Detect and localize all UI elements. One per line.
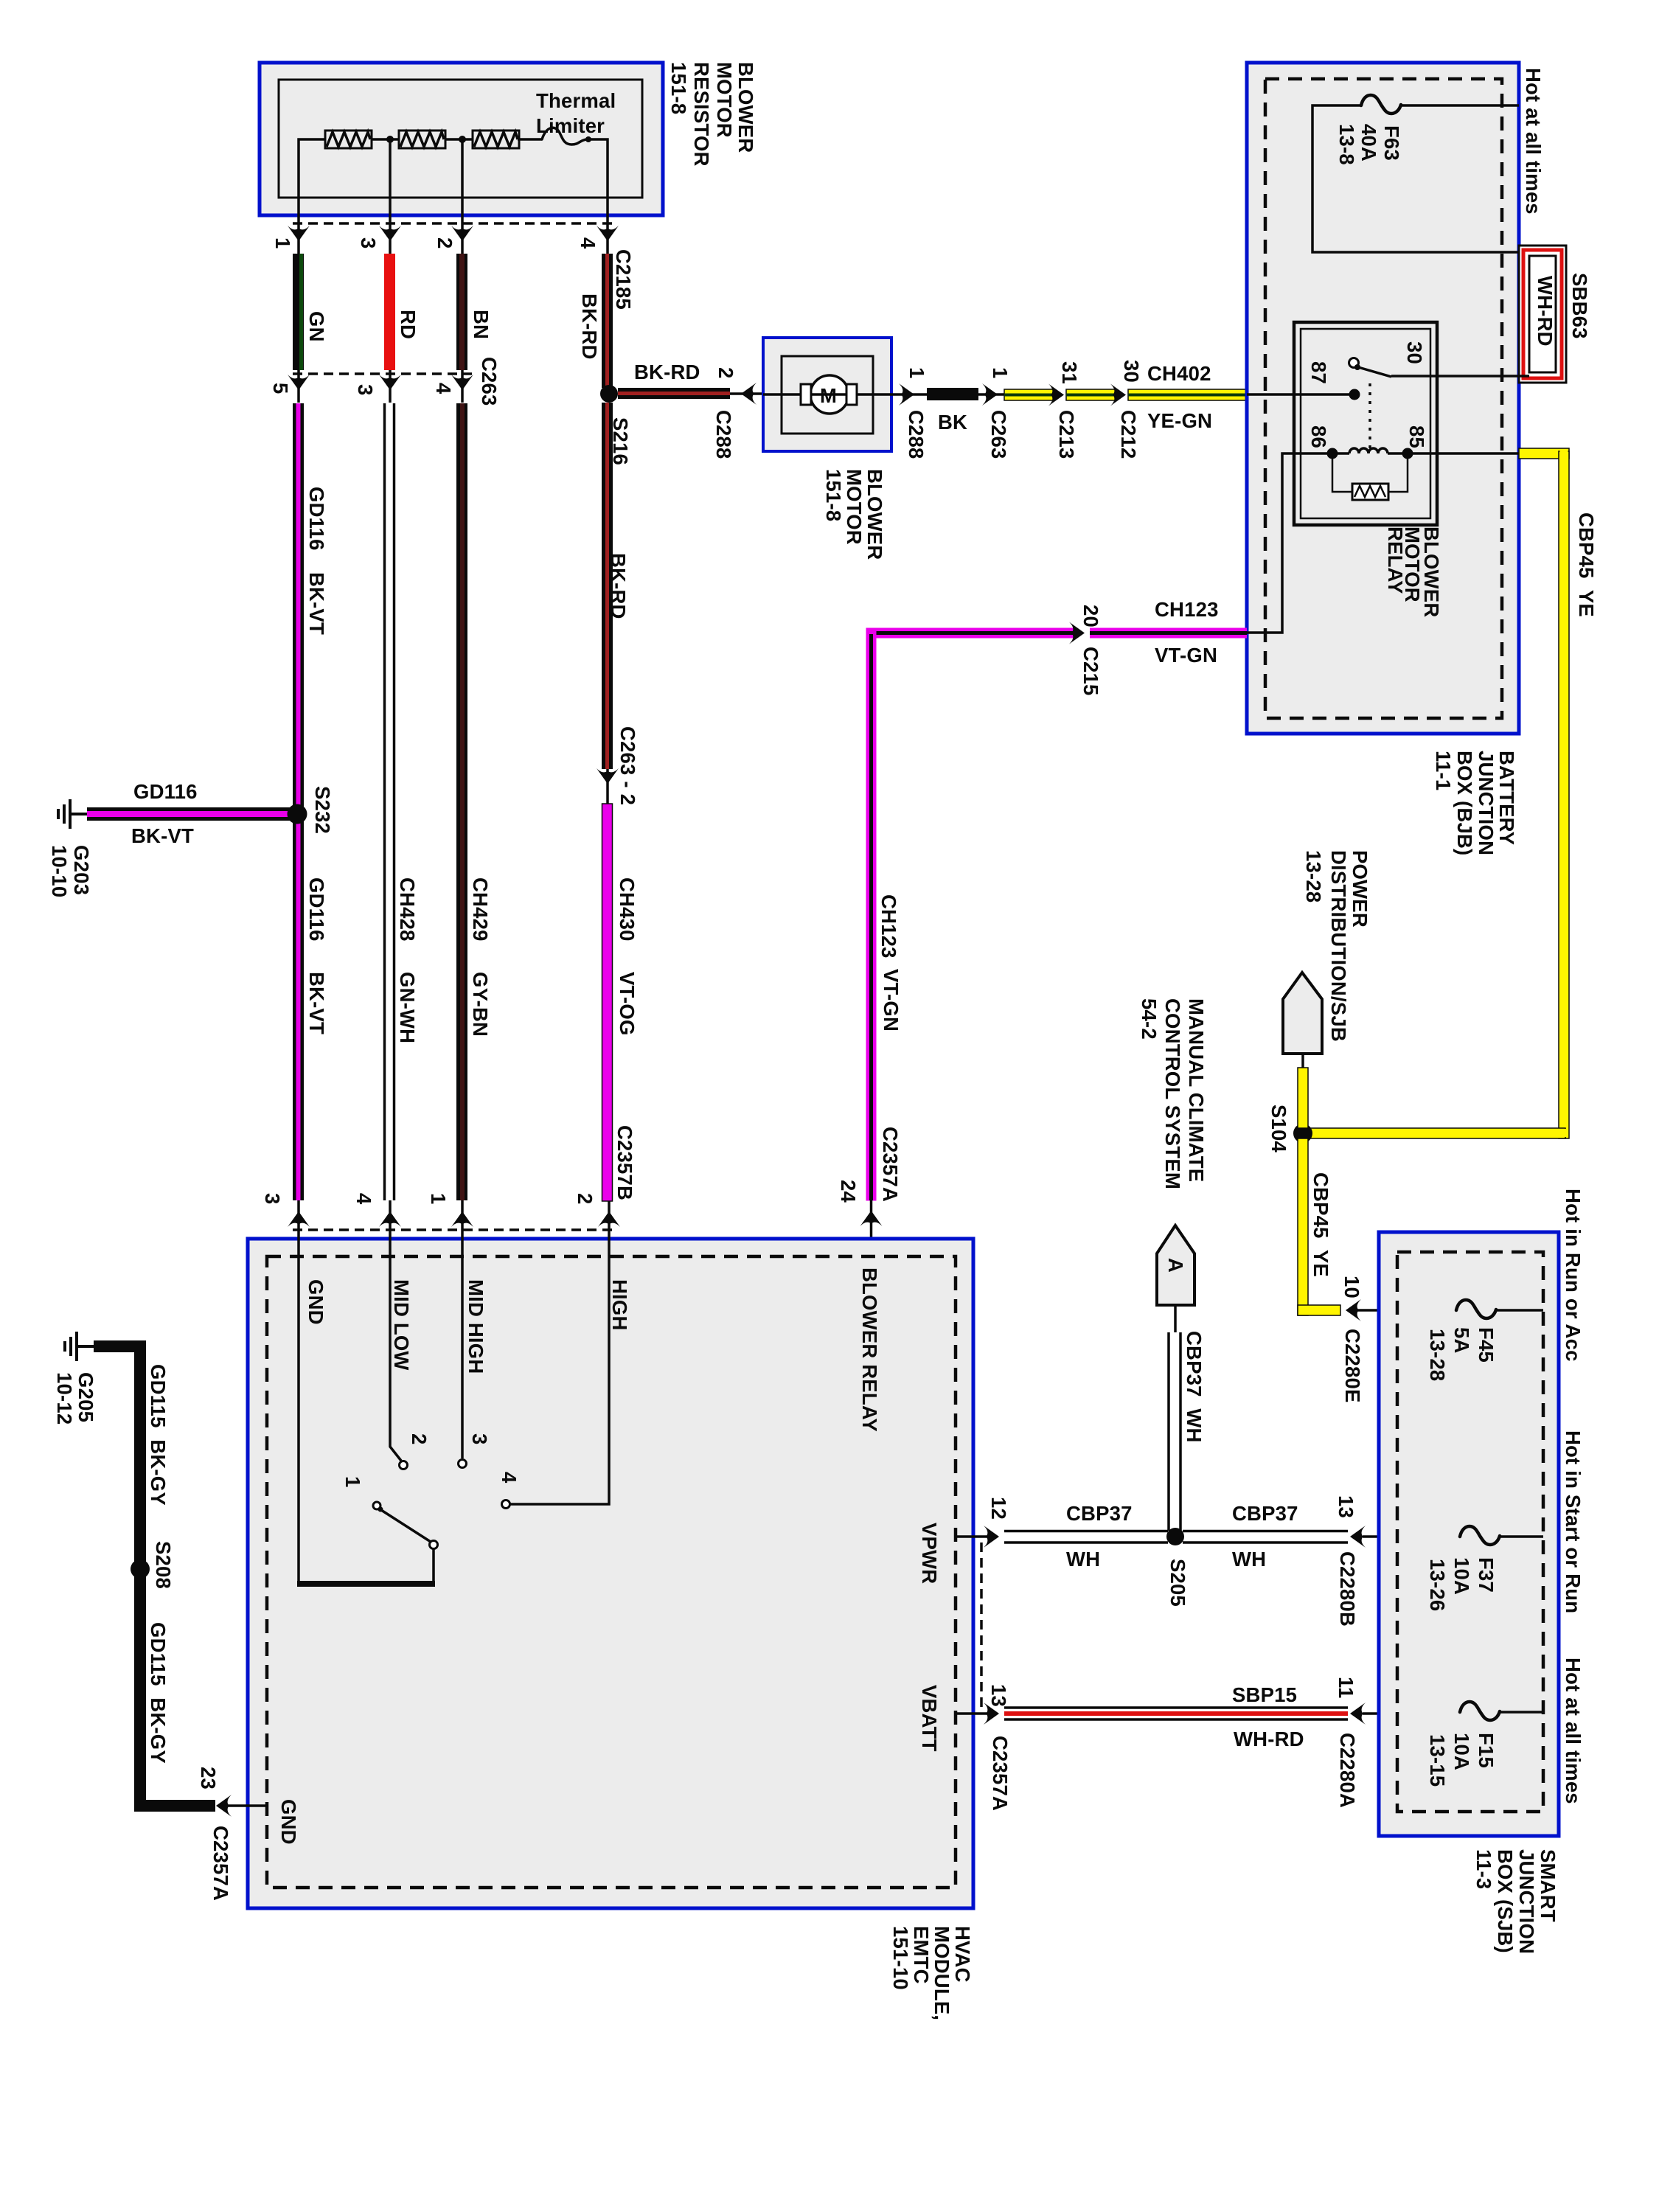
svg-text:13: 13: [1335, 1495, 1357, 1518]
svg-text:MOTOR: MOTOR: [843, 469, 866, 545]
svg-text:CBP45 YE: CBP45 YE: [1310, 1172, 1332, 1277]
svg-text:A: A: [1164, 1258, 1187, 1273]
wire CH402 into relay pin 87: [1247, 393, 1352, 396]
svg-text:VT-OG: VT-OG: [616, 972, 639, 1036]
relay switch arm pin30 to 87: [1349, 358, 1359, 368]
svg-text:C263: C263: [987, 410, 1010, 459]
svg-text:GN-WH: GN-WH: [396, 972, 419, 1043]
svg-text:11: 11: [1335, 1677, 1357, 1698]
svg-text:S232: S232: [311, 786, 334, 834]
relay coil: [1332, 452, 1349, 455]
svg-text:151-8: 151-8: [822, 469, 845, 521]
svg-text:MID HIGH: MID HIGH: [465, 1279, 487, 1374]
svg-text:BK-VT: BK-VT: [305, 972, 328, 1034]
svg-text:13-28: 13-28: [1302, 850, 1325, 902]
svg-text:RESISTOR: RESISTOR: [690, 62, 713, 167]
pin 3 arrow: [379, 226, 401, 241]
svg-text:10A: 10A: [1450, 1557, 1473, 1595]
svg-text:MANUAL CLIMATE: MANUAL CLIMATE: [1185, 998, 1208, 1182]
svg-text:87: 87: [1307, 361, 1330, 384]
wire CBP45 up to power distribution: [1298, 1068, 1308, 1128]
svg-text:4: 4: [432, 383, 455, 394]
wire coil 85 to CBP45: [1408, 452, 1519, 455]
pin 4 arrow: [597, 226, 619, 241]
connector C263-2 arrow: [606, 769, 609, 804]
svg-text:GY-BN: GY-BN: [469, 972, 492, 1037]
pin 3 arrow GND: [288, 1211, 310, 1227]
connector C2185 dashed bracket: [293, 222, 613, 225]
ground G203: [58, 799, 88, 829]
svg-text:GND: GND: [277, 1799, 300, 1845]
svg-text:F63: F63: [1380, 125, 1403, 161]
svg-text:VT-GN: VT-GN: [1155, 644, 1217, 667]
svg-text:31: 31: [1058, 361, 1081, 384]
svg-text:CBP37: CBP37: [1066, 1502, 1133, 1525]
svg-text:CH430: CH430: [616, 877, 639, 942]
svg-text:POWER: POWER: [1349, 850, 1371, 928]
wire VBATT pin 13: [956, 1712, 991, 1715]
wire VPWR pin 12: [956, 1535, 991, 1538]
svg-text:2: 2: [408, 1433, 431, 1445]
pin 2 arrow HIGH: [598, 1211, 620, 1227]
svg-text:BK-VT: BK-VT: [305, 572, 328, 635]
svg-text:RELAY: RELAY: [1384, 526, 1407, 594]
svg-text:BK-RD: BK-RD: [634, 361, 700, 383]
connector bracket dashed pin12-pin13: [980, 1543, 983, 1709]
resistor R1: [325, 131, 372, 148]
svg-text:F37: F37: [1475, 1557, 1498, 1593]
fuse F37 10A: [1460, 1526, 1500, 1545]
svg-text:23: 23: [197, 1767, 220, 1790]
wire CH429 GY-BN vertical: [456, 403, 467, 1200]
svg-text:BATTERY: BATTERY: [1495, 751, 1518, 845]
splice S205: [1166, 1528, 1184, 1545]
connector C2357A pin 24 arrow: [870, 1200, 873, 1256]
wire BK-RD C2185: [602, 254, 613, 388]
svg-text:GD116: GD116: [133, 780, 198, 803]
svg-text:WH-RD: WH-RD: [1234, 1728, 1304, 1750]
splice S232: [288, 804, 307, 824]
svg-text:2: 2: [434, 237, 456, 249]
svg-text:GD116: GD116: [305, 487, 328, 551]
svg-text:BLOWER: BLOWER: [734, 62, 757, 153]
svg-text:12: 12: [987, 1497, 1010, 1520]
svg-text:85: 85: [1405, 425, 1428, 448]
svg-text:CH428: CH428: [396, 877, 419, 942]
svg-text:3: 3: [357, 237, 380, 249]
svg-text:13-28: 13-28: [1426, 1329, 1449, 1381]
svg-text:F15: F15: [1475, 1733, 1498, 1768]
fuse F45 5A: [1456, 1300, 1496, 1318]
connector C2357B dashed bracket: [293, 1228, 616, 1231]
svg-text:11-1: 11-1: [1432, 751, 1455, 790]
svg-text:HIGH: HIGH: [608, 1279, 631, 1331]
pin 4 arrow: [461, 370, 464, 403]
svg-text:Hot at all times: Hot at all times: [1562, 1658, 1585, 1804]
svg-text:30: 30: [1120, 360, 1143, 383]
pin 2 arrow: [451, 226, 473, 241]
wire CBP45 down to C2280E: [1298, 1138, 1308, 1315]
pin 5 arrow: [297, 370, 300, 403]
svg-text:CBP37: CBP37: [1232, 1502, 1298, 1525]
svg-text:C2357A: C2357A: [989, 1736, 1012, 1811]
off-page arrow A manual climate control: [1157, 1225, 1194, 1305]
wire CBP37 WH vertical from A: [1169, 1332, 1180, 1531]
svg-text:MODULE,: MODULE,: [931, 1926, 953, 2020]
svg-text:WH-RD: WH-RD: [1534, 276, 1557, 347]
svg-text:C2357A: C2357A: [209, 1826, 232, 1901]
svg-text:BN: BN: [470, 310, 493, 339]
svg-text:4: 4: [498, 1472, 521, 1484]
svg-text:GD115 BK-GY: GD115 BK-GY: [147, 1364, 170, 1506]
connector C263 dashed bracket: [293, 372, 472, 375]
svg-text:C212: C212: [1117, 410, 1140, 459]
svg-text:CH402: CH402: [1147, 362, 1211, 385]
svg-text:JUNCTION: JUNCTION: [1515, 1849, 1538, 1954]
svg-text:C2280A: C2280A: [1336, 1733, 1359, 1808]
svg-text:1: 1: [341, 1476, 364, 1488]
node junction R2-R3: [459, 136, 466, 143]
svg-text:C213: C213: [1055, 410, 1078, 459]
svg-text:1: 1: [905, 367, 928, 379]
svg-text:5A: 5A: [1450, 1327, 1473, 1354]
connector C2280B pin 13 arrow: [1350, 1526, 1366, 1548]
wire SBP15 WH-RD: [1004, 1708, 1348, 1719]
svg-text:WH: WH: [1232, 1548, 1266, 1571]
svg-text:54-2: 54-2: [1138, 998, 1161, 1040]
fuse F63 40A: [1361, 95, 1401, 114]
svg-text:MID LOW: MID LOW: [390, 1279, 413, 1371]
svg-text:CH429: CH429: [469, 877, 492, 942]
svg-text:VT-GN: VT-GN: [880, 969, 902, 1032]
svg-text:13-8: 13-8: [1335, 124, 1358, 165]
svg-text:Limiter: Limiter: [536, 114, 605, 137]
svg-text:HVAC: HVAC: [951, 1926, 974, 1983]
svg-text:10-10: 10-10: [48, 845, 71, 897]
fuse F15 10A: [1460, 1702, 1500, 1720]
svg-text:13: 13: [987, 1684, 1010, 1707]
switch arm pin 1: [373, 1502, 380, 1509]
wire hot at all times to fuse F63: [1312, 105, 1529, 252]
wire CBP45 YE yellow: [1303, 448, 1569, 1138]
splice S104: [1293, 1124, 1312, 1143]
svg-text:3: 3: [354, 384, 377, 396]
wire GD116 BK-VT vertical: [293, 403, 304, 1200]
relay dotted actuator line: [1368, 383, 1371, 448]
connector C2280E pin 10 arrow: [1346, 1299, 1361, 1321]
svg-text:CBP45 YE: CBP45 YE: [1575, 512, 1598, 617]
svg-text:S104: S104: [1267, 1105, 1290, 1153]
svg-text:CH123: CH123: [877, 894, 900, 959]
svg-text:13-26: 13-26: [1426, 1559, 1449, 1611]
svg-text:10-12: 10-12: [53, 1372, 76, 1425]
svg-text:DISTRIBUTION/SJB: DISTRIBUTION/SJB: [1327, 850, 1350, 1042]
svg-text:BLOWER RELAY: BLOWER RELAY: [858, 1267, 881, 1432]
svg-text:11-3: 11-3: [1472, 1849, 1495, 1889]
svg-text:GND: GND: [305, 1279, 327, 1325]
pin 3 arrow: [389, 370, 392, 403]
svg-text:24: 24: [837, 1180, 860, 1203]
svg-text:G205: G205: [74, 1372, 97, 1422]
wire RD pin3: [384, 254, 395, 370]
svg-text:4: 4: [577, 237, 599, 249]
svg-text:MOTOR: MOTOR: [713, 62, 736, 138]
svg-text:2: 2: [714, 367, 737, 379]
svg-text:VBATT: VBATT: [918, 1685, 941, 1752]
svg-text:F45: F45: [1475, 1327, 1498, 1363]
svg-text:3: 3: [261, 1193, 284, 1205]
battery junction box BJB: [1247, 63, 1519, 734]
svg-text:BK-RD: BK-RD: [607, 553, 630, 619]
wire SBB63 to relay pin 30: [1391, 375, 1529, 378]
svg-text:1: 1: [989, 367, 1012, 379]
wire BN pin2: [456, 254, 467, 370]
svg-text:G203: G203: [70, 845, 93, 895]
relay coil suppression resistor: [1332, 453, 1408, 492]
svg-text:Hot in Start or Run: Hot in Start or Run: [1562, 1430, 1585, 1613]
connector SBB63: [1519, 246, 1566, 383]
svg-text:20: 20: [1079, 605, 1102, 627]
pin 1 arrow MID HIGH: [451, 1211, 473, 1227]
connector C2357A pin 23 GND arrow: [218, 1804, 267, 1807]
connector C288 pin 2 arrow: [741, 383, 757, 405]
svg-text:C215: C215: [1079, 647, 1102, 696]
svg-text:C2357B: C2357B: [613, 1125, 636, 1200]
switch contact 3: [459, 1460, 467, 1468]
HVAC module EMTC box: [248, 1239, 973, 1908]
off-page arrow POWER DISTRIBUTION: [1283, 973, 1322, 1054]
wire CH428 GN-WH vertical: [385, 403, 394, 1200]
wire GD115 BK-GY thick: [94, 1346, 215, 1806]
svg-text:GD116: GD116: [305, 877, 328, 942]
connector C212 pin 30 arrow: [1110, 384, 1126, 406]
svg-text:10: 10: [1340, 1276, 1363, 1298]
svg-text:JUNCTION: JUNCTION: [1475, 751, 1498, 855]
svg-text:BK: BK: [938, 411, 967, 434]
svg-text:40A: 40A: [1357, 124, 1380, 161]
wire BK-RD S216 to blower motor: [618, 388, 730, 399]
blower motor resistor box 151-8: [260, 63, 663, 215]
wire CH402 YE-GN: [1004, 389, 1247, 400]
svg-text:2: 2: [574, 1193, 597, 1205]
switch contact 4: [502, 1500, 510, 1509]
resistor R3: [473, 131, 519, 148]
splice S216: [600, 385, 618, 403]
svg-text:86: 86: [1307, 425, 1330, 448]
connector C2357B pins into HVAC: [299, 1200, 609, 1256]
svg-text:EMTC: EMTC: [910, 1926, 933, 1984]
svg-text:WH: WH: [1066, 1548, 1100, 1571]
node junction R1-R2: [386, 136, 394, 143]
svg-text:Hot in Run or Acc: Hot in Run or Acc: [1562, 1189, 1585, 1362]
svg-text:S208: S208: [152, 1541, 175, 1589]
svg-text:SBB63: SBB63: [1568, 273, 1591, 339]
blower switch wires inside: [299, 1256, 609, 1584]
wire CH430 VT-OG vertical: [602, 804, 613, 1201]
svg-text:13-15: 13-15: [1426, 1734, 1449, 1787]
svg-text:3: 3: [468, 1433, 491, 1445]
svg-text:S205: S205: [1166, 1559, 1189, 1607]
svg-text:BK-RD: BK-RD: [578, 293, 601, 360]
pin 1 arrow: [288, 226, 310, 241]
svg-text:GN: GN: [305, 311, 328, 342]
blower motor relay: [1294, 322, 1437, 525]
svg-text:C288: C288: [905, 410, 928, 459]
connector C215 pin 20 arrow: [1069, 622, 1085, 644]
svg-text:RD: RD: [397, 310, 420, 339]
svg-text:CONTROL SYSTEM: CONTROL SYSTEM: [1161, 998, 1184, 1189]
svg-text:151-8: 151-8: [667, 62, 690, 114]
svg-text:SMART: SMART: [1537, 1849, 1559, 1922]
connector C213 pin 31 arrow: [1048, 384, 1064, 406]
svg-text:BOX (BJB): BOX (BJB): [1453, 751, 1476, 855]
svg-text:CH123: CH123: [1155, 598, 1219, 621]
splice S208: [131, 1559, 150, 1579]
motor symbol M: [810, 375, 849, 414]
pin 4 arrow MID LOW: [379, 1211, 401, 1227]
wire CH123 VT-GN magenta: [866, 628, 1248, 1201]
svg-text:Hot at all times: Hot at all times: [1522, 68, 1545, 215]
wire resistor chain: [299, 139, 608, 254]
svg-text:C263 - 2: C263 - 2: [616, 726, 639, 805]
resistor R2: [399, 131, 445, 148]
svg-text:C2280E: C2280E: [1341, 1329, 1364, 1403]
svg-text:SBP15: SBP15: [1232, 1683, 1297, 1706]
label BLOWER MOTOR RESISTOR 151-8: [667, 62, 757, 167]
svg-text:GD115 BK-GY: GD115 BK-GY: [147, 1622, 170, 1764]
wire GN pin1: [293, 254, 304, 370]
svg-text:1: 1: [427, 1193, 450, 1205]
svg-text:BOX (SJB): BOX (SJB): [1494, 1849, 1517, 1953]
connector C263 pin 1 arrow: [978, 393, 1007, 396]
svg-text:C288: C288: [712, 410, 735, 459]
svg-text:1: 1: [271, 237, 294, 249]
svg-text:C2280B: C2280B: [1336, 1551, 1359, 1627]
connector C2280A pin 11 arrow: [1350, 1703, 1366, 1725]
svg-text:C2185: C2185: [612, 249, 635, 310]
switch contact 2: [400, 1461, 408, 1470]
wire GD116 BK-VT to ground: [87, 807, 297, 821]
svg-text:BLOWER: BLOWER: [863, 469, 886, 560]
wire CBP37 WH left: [1004, 1531, 1348, 1543]
svg-text:CBP37 WH: CBP37 WH: [1183, 1331, 1206, 1443]
svg-text:Thermal: Thermal: [536, 89, 616, 112]
svg-text:151-10: 151-10: [889, 1926, 912, 1990]
svg-text:30: 30: [1403, 341, 1426, 364]
svg-text:YE-GN: YE-GN: [1147, 409, 1212, 432]
wire motor to C288 pin 1: [891, 393, 927, 396]
svg-text:4: 4: [352, 1193, 375, 1205]
ground G205: [65, 1332, 94, 1361]
svg-text:BK-VT: BK-VT: [131, 824, 194, 847]
thermal limiter: [542, 128, 587, 145]
wire coil to 86 exits left: [1247, 453, 1332, 633]
wire BK-RD vertical below S216: [602, 403, 613, 769]
wire BK: [927, 388, 978, 400]
blower motor 151-8 box: [763, 338, 891, 451]
svg-text:C263: C263: [478, 357, 501, 406]
svg-text:10A: 10A: [1450, 1733, 1473, 1770]
svg-text:VPWR: VPWR: [918, 1523, 941, 1584]
svg-text:5: 5: [269, 383, 292, 394]
smart junction box SJB: [1379, 1232, 1559, 1836]
svg-text:C2357A: C2357A: [879, 1127, 902, 1202]
